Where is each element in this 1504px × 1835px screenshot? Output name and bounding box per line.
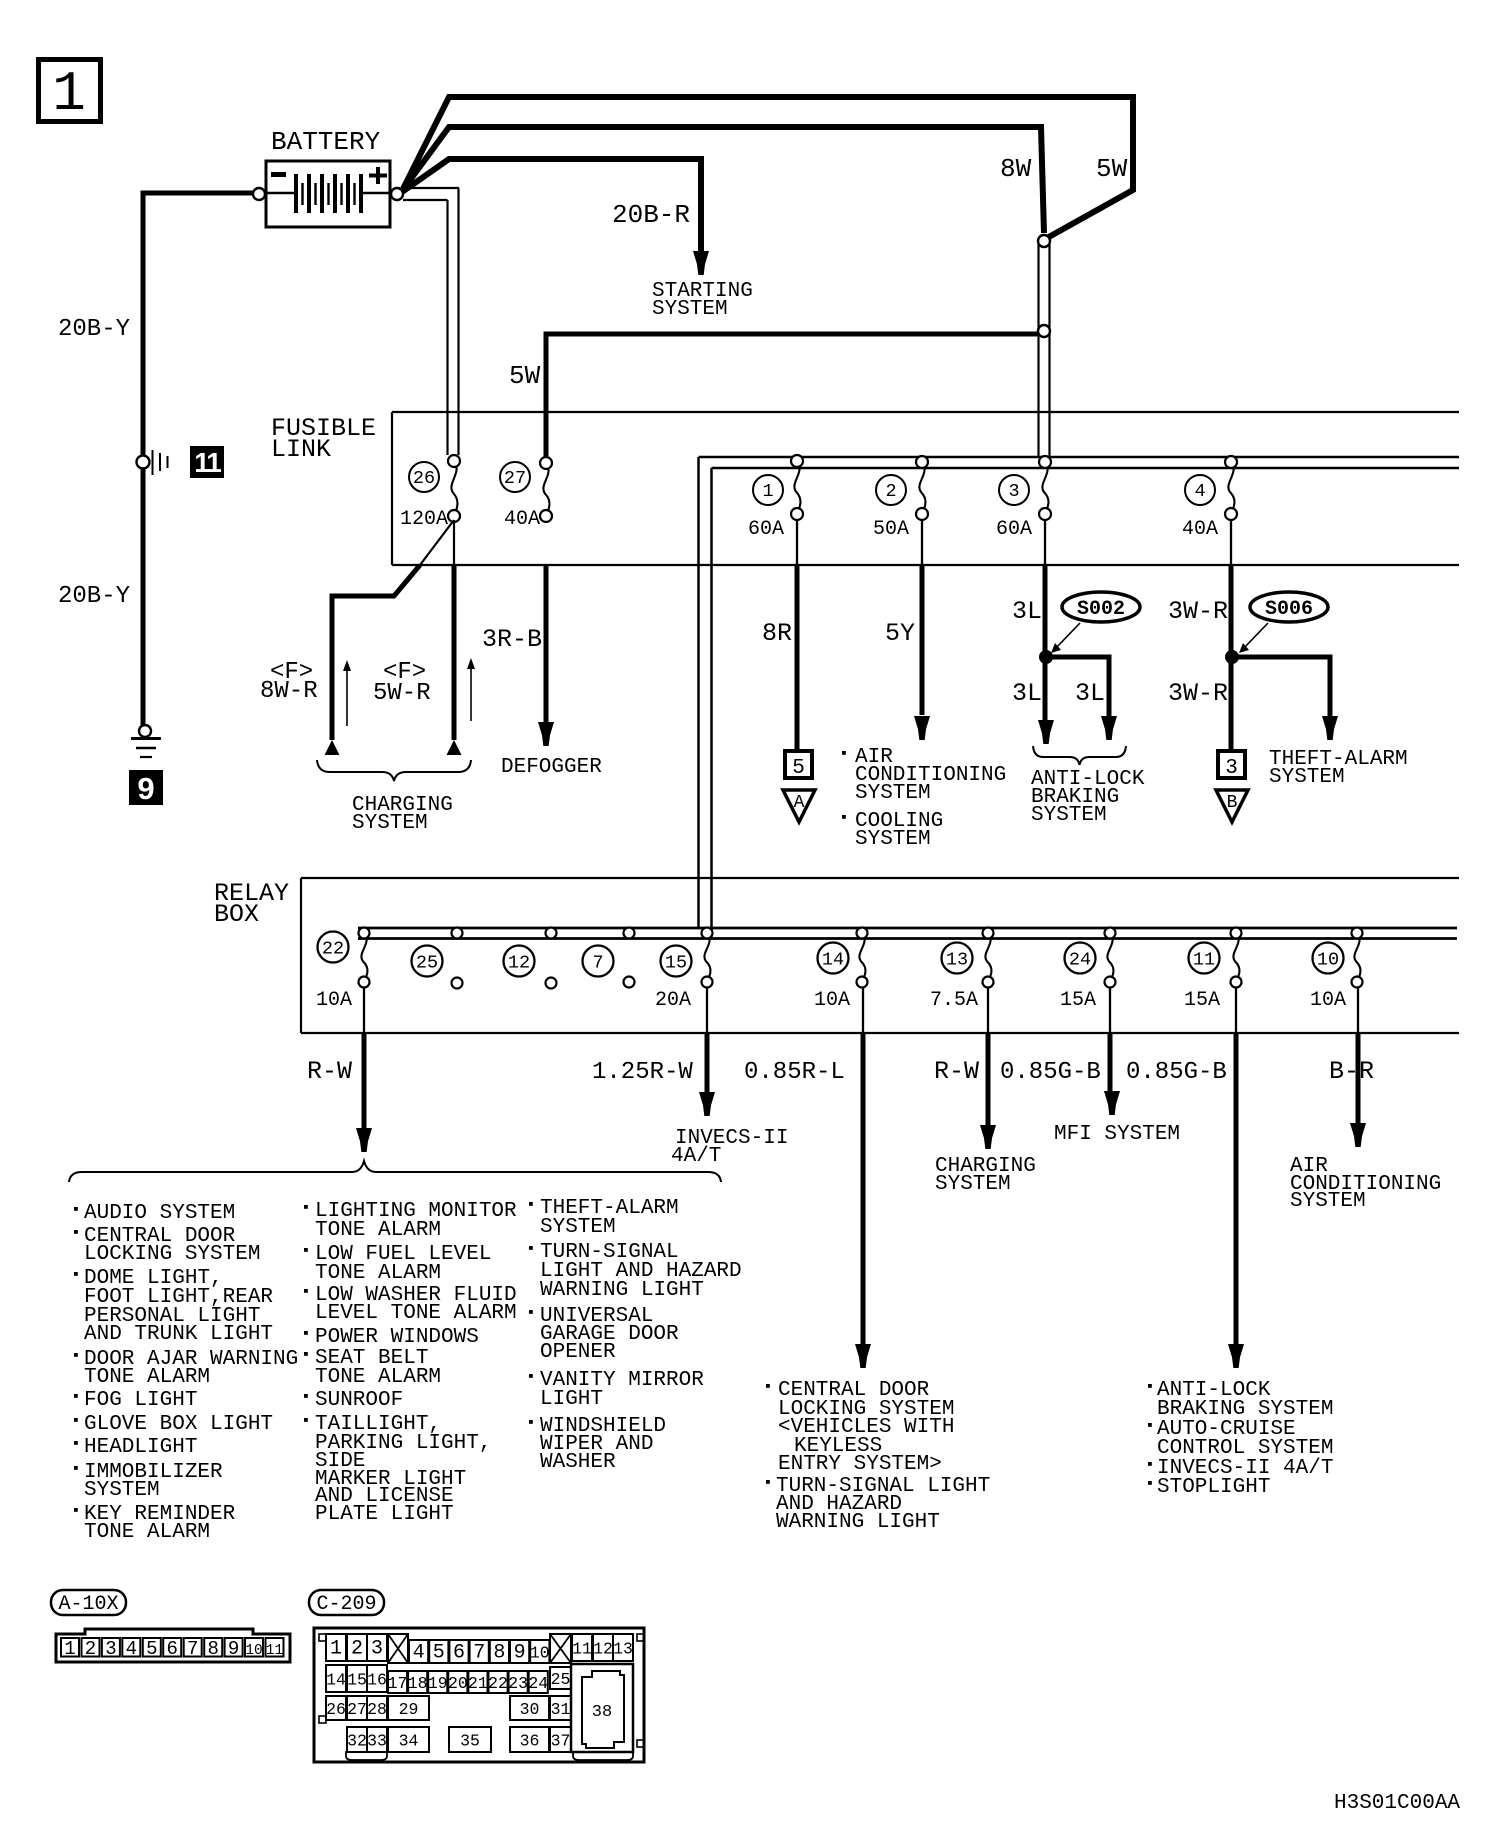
fuse 10 10A bbox=[1310, 928, 1363, 1013]
fuse 13 7.5A bbox=[930, 928, 994, 1013]
svg-text:FOG LIGHT: FOG LIGHT bbox=[84, 1389, 197, 1412]
wire 20B-Y battery negative to ground bbox=[143, 193, 253, 456]
wire B-R fuse 10 to air conditioning bbox=[1357, 988, 1359, 1033]
svg-text:11: 11 bbox=[1193, 950, 1215, 971]
fusible link box bbox=[392, 412, 1459, 565]
battery negative terminal bbox=[253, 188, 265, 200]
brace anti-lock bbox=[1033, 746, 1126, 765]
svg-text:9: 9 bbox=[137, 771, 154, 806]
svg-text:3L: 3L bbox=[1012, 679, 1042, 708]
svg-text:2: 2 bbox=[85, 1638, 96, 1660]
svg-text:25: 25 bbox=[551, 1670, 571, 1689]
brace accessory list bbox=[69, 1161, 721, 1182]
fusible link 27 40A bbox=[500, 457, 552, 531]
anti-lock braking list bbox=[1148, 1379, 1333, 1499]
svg-text:6: 6 bbox=[453, 1642, 465, 1665]
svg-text:10: 10 bbox=[1317, 950, 1339, 971]
wire 3W-R branch via splice bbox=[1231, 657, 1330, 716]
current arrow (5W-R) bbox=[467, 658, 475, 721]
svg-text:34: 34 bbox=[399, 1732, 419, 1751]
svg-text:STOPLIGHT: STOPLIGHT bbox=[1157, 1476, 1270, 1499]
svg-text:11: 11 bbox=[572, 1640, 592, 1659]
svg-text:13: 13 bbox=[613, 1640, 633, 1659]
svg-text:5Y: 5Y bbox=[885, 619, 915, 648]
svg-text:26: 26 bbox=[413, 468, 435, 489]
inline connector on 20B-Y wire bbox=[137, 450, 168, 475]
svg-text:22: 22 bbox=[322, 939, 344, 960]
accessory list column 2 bbox=[304, 1200, 517, 1526]
wire R-W fuse 13 to charging system bbox=[987, 988, 989, 1033]
svg-text:40A: 40A bbox=[504, 508, 540, 531]
svg-text:0.85G-B: 0.85G-B bbox=[1000, 1059, 1101, 1086]
svg-text:15: 15 bbox=[347, 1671, 367, 1690]
svg-text:3L: 3L bbox=[1075, 679, 1105, 708]
svg-text:SYSTEM: SYSTEM bbox=[935, 1173, 1011, 1196]
page number box 1 bbox=[39, 60, 101, 127]
svg-text:24: 24 bbox=[1069, 950, 1091, 971]
relay box bus bbox=[358, 928, 1457, 939]
svg-text:TONE ALARM: TONE ALARM bbox=[315, 1262, 441, 1285]
svg-text:C-209: C-209 bbox=[316, 1593, 376, 1616]
fusible link 3 60A bbox=[996, 456, 1051, 541]
svg-text:1: 1 bbox=[330, 1638, 342, 1661]
fuse 22 10A bbox=[316, 928, 370, 1013]
svg-text:20A: 20A bbox=[655, 989, 691, 1012]
svg-text:5: 5 bbox=[792, 757, 805, 780]
ground ref 9 bbox=[129, 770, 163, 806]
fuse 15 20A bbox=[655, 928, 713, 1013]
svg-text:32: 32 bbox=[347, 1732, 367, 1751]
svg-text:1.25R-W: 1.25R-W bbox=[592, 1059, 693, 1086]
svg-text:13: 13 bbox=[946, 950, 968, 971]
svg-text:4: 4 bbox=[1194, 481, 1205, 502]
svg-text:7: 7 bbox=[473, 1642, 485, 1665]
connector A-10X body bbox=[56, 1629, 290, 1662]
wire 3L fuse 3 to anti-lock braking system bbox=[1044, 520, 1046, 565]
svg-text:LIGHT: LIGHT bbox=[540, 1388, 603, 1411]
svg-text:SYSTEM: SYSTEM bbox=[1290, 1190, 1366, 1213]
svg-text:B: B bbox=[1227, 793, 1238, 813]
junction node 5W tap bbox=[1038, 325, 1050, 337]
svg-text:3R-B: 3R-B bbox=[482, 625, 542, 654]
svg-text:25: 25 bbox=[416, 953, 438, 974]
wire 3R-B fuse 27 to defogger bbox=[544, 565, 549, 722]
svg-text:BATTERY: BATTERY bbox=[271, 127, 381, 157]
svg-text:3: 3 bbox=[371, 1638, 383, 1661]
svg-text:12: 12 bbox=[508, 953, 530, 974]
wire 5W battery to junction (top feed) bbox=[402, 97, 1133, 238]
wire 3W-R fuse 4 to theft-alarm bbox=[1230, 520, 1232, 565]
wire 5W junction to fuse 27 bbox=[546, 334, 1038, 457]
svg-text:21: 21 bbox=[468, 1674, 488, 1693]
svg-text:11: 11 bbox=[194, 447, 221, 478]
svg-text:7.5A: 7.5A bbox=[930, 989, 978, 1012]
svg-text:SYSTEM: SYSTEM bbox=[855, 828, 931, 851]
svg-text:GLOVE BOX LIGHT: GLOVE BOX LIGHT bbox=[84, 1413, 273, 1436]
svg-text:33: 33 bbox=[367, 1732, 387, 1751]
svg-text:10A: 10A bbox=[814, 989, 850, 1012]
svg-text:H3S01C00AA: H3S01C00AA bbox=[1334, 1792, 1460, 1815]
svg-text:TONE ALARM: TONE ALARM bbox=[84, 1366, 210, 1389]
svg-text:POWER WINDOWS: POWER WINDOWS bbox=[315, 1326, 479, 1349]
svg-text:19: 19 bbox=[428, 1674, 448, 1693]
svg-text:WARNING LIGHT: WARNING LIGHT bbox=[540, 1279, 704, 1302]
svg-text:120A: 120A bbox=[400, 508, 448, 531]
svg-text:3: 3 bbox=[1008, 481, 1019, 502]
svg-text:SUNROOF: SUNROOF bbox=[315, 1389, 403, 1412]
svg-text:PLATE LIGHT: PLATE LIGHT bbox=[315, 1503, 454, 1526]
wire 0.85R-L fuse 14 to central door locking bbox=[862, 988, 864, 1033]
svg-text:0.85R-L: 0.85R-L bbox=[744, 1059, 845, 1086]
svg-text:50A: 50A bbox=[873, 518, 909, 541]
svg-text:5W: 5W bbox=[1096, 154, 1128, 184]
svg-text:30: 30 bbox=[520, 1700, 540, 1719]
svg-text:3W-R: 3W-R bbox=[1168, 597, 1228, 626]
svg-text:3L: 3L bbox=[1012, 597, 1042, 626]
svg-text:60A: 60A bbox=[996, 518, 1032, 541]
connector box 3 bbox=[1218, 751, 1245, 780]
svg-text:1: 1 bbox=[64, 1638, 75, 1660]
wire 5W-R fuse 26 to charging system bbox=[453, 520, 455, 565]
svg-text:4: 4 bbox=[413, 1642, 425, 1665]
connector box 5 bbox=[785, 751, 812, 780]
connector C-209 body bbox=[314, 1628, 644, 1762]
svg-text:29: 29 bbox=[399, 1700, 419, 1719]
wire 3L branch via splice bbox=[1045, 657, 1109, 716]
svg-text:8: 8 bbox=[493, 1642, 505, 1665]
fusible link 26 120A bbox=[400, 455, 460, 531]
svg-text:23: 23 bbox=[508, 1674, 528, 1693]
svg-text:SYSTEM: SYSTEM bbox=[84, 1479, 160, 1502]
wire 8R fuse 1 to connector 5/A bbox=[796, 520, 798, 565]
svg-text:14: 14 bbox=[326, 1671, 346, 1690]
fusible link 2 50A bbox=[873, 456, 928, 541]
svg-text:AUDIO SYSTEM: AUDIO SYSTEM bbox=[84, 1202, 235, 1225]
spare fuse position 25 bbox=[412, 928, 463, 989]
current arrow (8W-R) bbox=[343, 660, 351, 726]
svg-text:LEVEL TONE ALARM: LEVEL TONE ALARM bbox=[315, 1302, 517, 1325]
svg-text:MFI SYSTEM: MFI SYSTEM bbox=[1054, 1123, 1180, 1146]
wire 8W-R fuse 26 to charging system bbox=[420, 520, 454, 565]
wire 1.25R-W fuse 15 to INVECS bbox=[706, 988, 708, 1033]
svg-text:8R: 8R bbox=[762, 619, 792, 648]
svg-text:SYSTEM: SYSTEM bbox=[352, 812, 428, 835]
battery bbox=[266, 127, 390, 227]
svg-text:7: 7 bbox=[592, 953, 603, 974]
connector C-209 label bbox=[309, 1590, 384, 1616]
svg-text:10: 10 bbox=[530, 1644, 550, 1663]
svg-text:27: 27 bbox=[504, 468, 526, 489]
svg-text:WARNING LIGHT: WARNING LIGHT bbox=[776, 1511, 940, 1534]
svg-text:26: 26 bbox=[326, 1700, 346, 1719]
svg-text:31: 31 bbox=[551, 1700, 571, 1719]
wire 5Y fuse 2 to air conditioning bbox=[921, 520, 923, 565]
svg-text:TONE ALARM: TONE ALARM bbox=[315, 1219, 441, 1242]
svg-text:TONE ALARM: TONE ALARM bbox=[315, 1366, 441, 1389]
spare fuse position 12 bbox=[504, 928, 557, 989]
arrow to starting system bbox=[693, 251, 709, 275]
svg-text:R-W: R-W bbox=[934, 1057, 979, 1086]
svg-text:15A: 15A bbox=[1060, 989, 1096, 1012]
relay box bbox=[301, 878, 1459, 1033]
svg-text:2: 2 bbox=[351, 1638, 363, 1661]
svg-text:60A: 60A bbox=[748, 518, 784, 541]
central door locking list bbox=[766, 1379, 990, 1534]
svg-text:14: 14 bbox=[822, 950, 844, 971]
svg-text:B-R: B-R bbox=[1329, 1057, 1374, 1086]
svg-text:36: 36 bbox=[520, 1732, 540, 1751]
svg-text:SYSTEM: SYSTEM bbox=[1269, 766, 1345, 789]
wire 20B-R battery to starting system bbox=[402, 159, 701, 252]
svg-text:17: 17 bbox=[388, 1674, 408, 1693]
ground bbox=[131, 725, 161, 757]
svg-text:3: 3 bbox=[105, 1638, 116, 1660]
svg-text:7: 7 bbox=[187, 1638, 198, 1660]
svg-text:8W-R: 8W-R bbox=[260, 678, 318, 705]
svg-text:0.85G-B: 0.85G-B bbox=[1126, 1059, 1227, 1086]
svg-text:22: 22 bbox=[488, 1674, 508, 1693]
svg-text:15: 15 bbox=[665, 953, 687, 974]
wire 8W battery to junction bbox=[402, 127, 1044, 233]
svg-text:10: 10 bbox=[245, 1643, 262, 1659]
battery positive terminal bbox=[391, 188, 403, 200]
svg-text:5: 5 bbox=[146, 1638, 157, 1660]
svg-text:38: 38 bbox=[592, 1703, 612, 1722]
svg-text:HEADLIGHT: HEADLIGHT bbox=[84, 1436, 197, 1459]
svg-text:20B-Y: 20B-Y bbox=[58, 316, 130, 343]
svg-text:A-10X: A-10X bbox=[58, 1593, 118, 1616]
svg-text:9: 9 bbox=[228, 1638, 239, 1660]
svg-text:20B-R: 20B-R bbox=[612, 200, 690, 230]
svg-text:8: 8 bbox=[207, 1638, 218, 1660]
svg-text:28: 28 bbox=[367, 1700, 387, 1719]
fuse 14 10A bbox=[814, 928, 868, 1013]
svg-text:1: 1 bbox=[762, 481, 773, 502]
svg-text:A: A bbox=[794, 793, 805, 813]
svg-text:11: 11 bbox=[266, 1643, 283, 1659]
spare fuse position 7 bbox=[583, 928, 635, 988]
wire battery positive to fuse 26 (outline wire) bbox=[403, 188, 459, 455]
svg-text:18: 18 bbox=[408, 1674, 428, 1693]
svg-text:15A: 15A bbox=[1184, 989, 1220, 1012]
svg-text:35: 35 bbox=[460, 1732, 480, 1751]
triangle marker B bbox=[1216, 790, 1248, 822]
svg-text:4: 4 bbox=[126, 1638, 137, 1660]
svg-text:1: 1 bbox=[52, 62, 86, 126]
svg-text:S006: S006 bbox=[1265, 598, 1313, 621]
svg-text:SYSTEM: SYSTEM bbox=[540, 1216, 616, 1239]
svg-text:20B-Y: 20B-Y bbox=[58, 583, 130, 610]
accessory list column 3 bbox=[529, 1197, 742, 1474]
svg-text:S002: S002 bbox=[1077, 598, 1125, 621]
svg-text:6: 6 bbox=[167, 1638, 178, 1660]
svg-text:R-W: R-W bbox=[307, 1057, 352, 1086]
svg-text:SYSTEM: SYSTEM bbox=[1031, 804, 1107, 827]
connector A-10X label bbox=[51, 1590, 126, 1616]
splice S006 bbox=[1225, 650, 1239, 664]
splice S002 bbox=[1039, 650, 1053, 664]
svg-text:DEFOGGER: DEFOGGER bbox=[501, 756, 602, 779]
label AIR CONDITIONING / COOLING SYSTEM bbox=[842, 746, 1006, 851]
triangle marker A bbox=[783, 790, 815, 822]
fuse 11 15A bbox=[1184, 928, 1242, 1013]
accessory list column 1 bbox=[74, 1202, 298, 1544]
svg-text:20: 20 bbox=[448, 1674, 468, 1693]
svg-text:5W: 5W bbox=[509, 361, 541, 391]
svg-text:4A/T: 4A/T bbox=[671, 1145, 721, 1168]
wire 0.85G-B fuse 11 to ABS bbox=[1235, 988, 1237, 1033]
svg-text:AND TRUNK LIGHT: AND TRUNK LIGHT bbox=[84, 1323, 273, 1346]
svg-text:8W: 8W bbox=[1000, 154, 1032, 184]
svg-text:ENTRY SYSTEM>: ENTRY SYSTEM> bbox=[778, 1453, 942, 1476]
svg-text:2: 2 bbox=[885, 481, 896, 502]
svg-text:3: 3 bbox=[1225, 757, 1238, 780]
svg-text:24: 24 bbox=[528, 1674, 548, 1693]
svg-text:10A: 10A bbox=[316, 989, 352, 1012]
svg-text:9: 9 bbox=[514, 1642, 526, 1665]
brace charging system bbox=[317, 760, 471, 781]
svg-text:5: 5 bbox=[433, 1642, 445, 1665]
svg-text:LINK: LINK bbox=[271, 435, 331, 464]
svg-text:OPENER: OPENER bbox=[540, 1341, 616, 1364]
svg-text:5W-R: 5W-R bbox=[373, 680, 431, 707]
svg-text:10A: 10A bbox=[1310, 989, 1346, 1012]
svg-text:SYSTEM: SYSTEM bbox=[652, 298, 728, 321]
power bus in fusible link box (outline wire to relay box) bbox=[699, 457, 1460, 938]
svg-text:12: 12 bbox=[593, 1640, 613, 1659]
svg-text:3W-R: 3W-R bbox=[1168, 679, 1228, 708]
fusible link 4 40A bbox=[1182, 456, 1237, 541]
svg-text:37: 37 bbox=[551, 1732, 571, 1751]
svg-text:TONE ALARM: TONE ALARM bbox=[84, 1521, 210, 1544]
svg-text:SYSTEM: SYSTEM bbox=[855, 782, 931, 805]
wire 8W junction to fusible link (outline wire) bbox=[1039, 244, 1050, 456]
svg-text:WASHER: WASHER bbox=[540, 1451, 616, 1474]
fuse 24 15A bbox=[1060, 928, 1116, 1013]
connector ref 11 bbox=[190, 446, 224, 478]
svg-text:16: 16 bbox=[367, 1671, 387, 1690]
wire 0.85G-B fuse 24 to MFI bbox=[1109, 988, 1111, 1033]
svg-text:BOX: BOX bbox=[214, 900, 259, 929]
svg-text:27: 27 bbox=[347, 1700, 367, 1719]
svg-text:40A: 40A bbox=[1182, 518, 1218, 541]
junction node 8W/5W (upper) bbox=[1038, 235, 1050, 247]
fusible link 1 60A bbox=[748, 455, 803, 541]
svg-text:LOCKING SYSTEM: LOCKING SYSTEM bbox=[84, 1243, 260, 1266]
wire R-W fuse 22 to accessories bbox=[363, 988, 365, 1033]
